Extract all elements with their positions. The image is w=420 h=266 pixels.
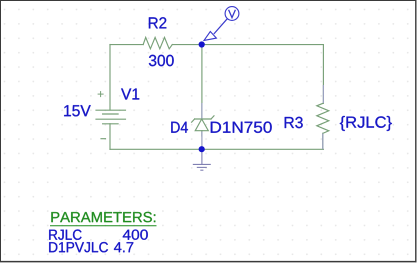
ground <box>193 149 211 170</box>
wire R2 right to node A <box>172 44 201 46</box>
value D1N750 <box>211 122 272 133</box>
parameters underline <box>50 225 157 227</box>
value 300 <box>149 55 174 66</box>
parameters title <box>51 212 155 222</box>
parameter value 4.7 <box>114 242 133 252</box>
label R3 <box>285 117 303 128</box>
value {RJLC} <box>340 116 392 131</box>
wire left vertical bottom (V1 minus to bottom wire) <box>109 124 111 150</box>
parameter name RJLC <box>49 230 81 240</box>
voltage probe V <box>204 7 239 41</box>
label V1 <box>121 89 139 100</box>
junction node B <box>199 146 205 152</box>
V1 plus mark <box>98 92 103 97</box>
wire left vertical top (to V1 plus terminal) <box>109 45 111 111</box>
diode D4 pin segments <box>201 103 203 149</box>
wire top-left horizontal (V1 top to R2 left) <box>110 44 143 46</box>
wire bottom horizontal (node B to corners) <box>110 148 323 150</box>
voltage source V1 battery plates <box>96 110 126 124</box>
wire right vertical (corner to R3 top) <box>322 45 324 104</box>
resistor R3 <box>317 103 329 133</box>
wire R3 bottom to bottom-right corner <box>322 133 324 149</box>
parameter value 400 <box>123 230 148 240</box>
wire node A down to diode cathode <box>201 45 203 119</box>
label R2 <box>149 17 166 28</box>
parameter name D1PVJLC <box>49 242 108 252</box>
resistor R2 <box>143 37 172 48</box>
label D4 <box>171 122 188 133</box>
V1 minus mark <box>101 138 106 140</box>
diode D4 zener <box>192 116 214 131</box>
value 15V <box>64 105 91 116</box>
wire node A to top-right corner <box>202 44 324 46</box>
resistor R3 pin segments <box>322 85 325 149</box>
junction node A <box>199 41 205 47</box>
wire diode anode to node B <box>201 131 203 136</box>
